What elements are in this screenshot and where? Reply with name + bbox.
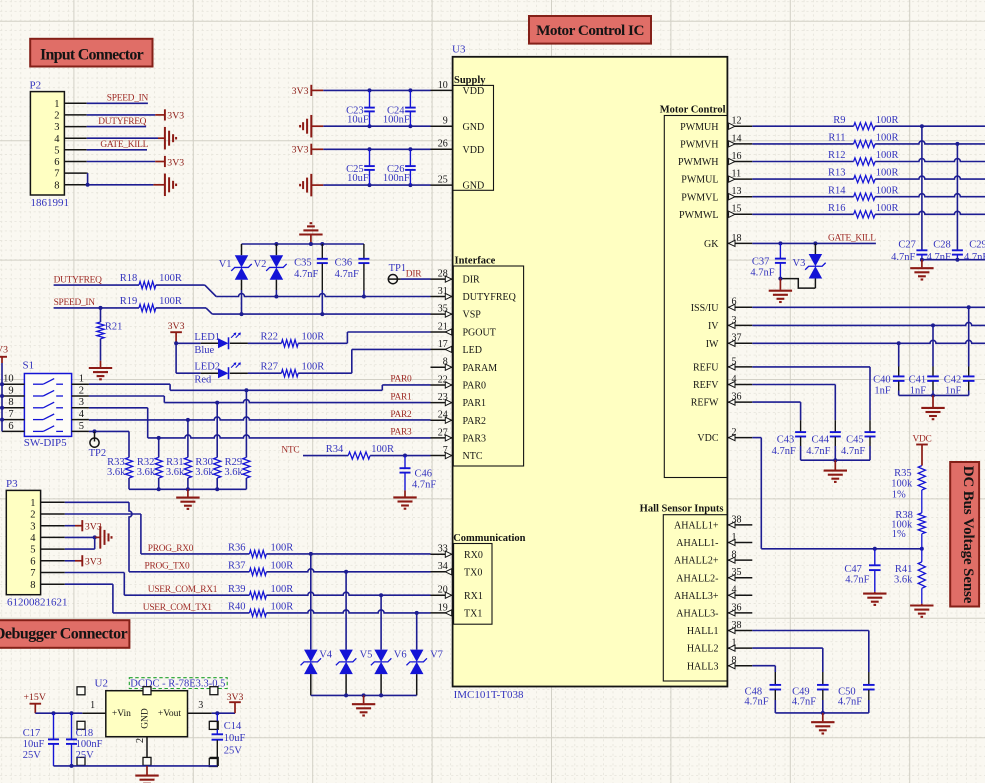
U3 pin 24 (PAR2) xyxy=(431,410,487,427)
U3 pin 4 (AHALL3+) xyxy=(674,585,752,602)
svg-text:V6: V6 xyxy=(394,649,407,660)
svg-text:IW: IW xyxy=(706,339,719,350)
wire C40-C42 rail xyxy=(899,393,969,397)
ground (input TVS bus) xyxy=(299,223,322,244)
ground (C49 rail) xyxy=(811,713,834,734)
wire PWM row R11 left xyxy=(752,143,853,145)
capacitor C26 100nF xyxy=(383,149,416,185)
svg-text:+15V: +15V xyxy=(24,692,46,703)
svg-text:PAR3: PAR3 xyxy=(390,428,412,438)
svg-text:Motor Control IC: Motor Control IC xyxy=(536,22,644,39)
wire S1 row3 to PAR3 xyxy=(89,408,431,440)
test point TP1 xyxy=(388,263,406,284)
net label PAR3 xyxy=(390,428,412,438)
svg-text:2: 2 xyxy=(54,111,59,122)
svg-text:100R: 100R xyxy=(876,150,899,161)
svg-text:100R: 100R xyxy=(876,168,899,179)
U3 pin 35 (AHALL2-) xyxy=(676,567,752,584)
power port 3V3 (VDD pin10) xyxy=(292,85,324,97)
connector P3 (61200821621) xyxy=(6,478,68,608)
svg-text:PAR0: PAR0 xyxy=(463,381,487,392)
svg-text:3V3: 3V3 xyxy=(85,557,102,568)
capacitor C25 10uF xyxy=(346,149,375,185)
svg-text:100R: 100R xyxy=(876,185,899,196)
wire P3 pin1 to PROG_TX0 xyxy=(65,502,141,572)
capacitor C45 4.7nF xyxy=(841,420,876,460)
svg-text:2: 2 xyxy=(79,385,84,396)
svg-text:SW-DIP5: SW-DIP5 xyxy=(24,437,67,449)
svg-text:3.6k: 3.6k xyxy=(166,467,185,478)
svg-text:GATE_KILL: GATE_KILL xyxy=(828,233,876,243)
wire 3V3 to VDD pin 10 xyxy=(323,88,430,92)
wire TVS bottom rail xyxy=(311,693,417,697)
svg-text:3V3: 3V3 xyxy=(167,111,184,122)
capacitor C14 10uF 25V xyxy=(209,713,245,766)
svg-text:PROG_TX0: PROG_TX0 xyxy=(145,562,190,572)
svg-text:+Vin: +Vin xyxy=(112,709,131,719)
svg-text:R11: R11 xyxy=(828,133,845,144)
svg-text:IV: IV xyxy=(708,321,719,332)
svg-text:Interface: Interface xyxy=(455,256,496,267)
wire R36 to U3 xyxy=(266,552,430,556)
resistor R13 100R xyxy=(828,168,899,183)
wire SPEED_IN stub from P2 pin 1 xyxy=(87,102,148,104)
wire P3 pin2 to PROG_RX0 xyxy=(65,514,141,554)
svg-text:100nF: 100nF xyxy=(76,739,103,750)
svg-text:TX1: TX1 xyxy=(464,609,482,620)
svg-text:R34: R34 xyxy=(326,444,344,455)
svg-text:3V3: 3V3 xyxy=(292,86,309,97)
svg-text:100R: 100R xyxy=(876,115,899,126)
svg-text:25: 25 xyxy=(438,175,448,186)
resistor R39 100R xyxy=(228,584,293,599)
wire P2 pin8 to ground xyxy=(88,184,165,186)
U3 pin 34 (TX0) xyxy=(431,561,483,578)
wire GND pin 9 xyxy=(323,124,430,128)
resistor R31 3.6k xyxy=(166,420,192,489)
ground (P3 pin4) xyxy=(100,526,111,549)
svg-text:R9: R9 xyxy=(833,115,845,126)
wire R39 to U3 xyxy=(266,592,430,597)
svg-text:7: 7 xyxy=(30,568,35,579)
svg-text:3: 3 xyxy=(198,700,203,711)
svg-text:10: 10 xyxy=(3,374,14,385)
ground (C37/V3) xyxy=(769,279,792,302)
banner Debugger Connector xyxy=(0,620,129,648)
resistor R9 100R xyxy=(833,115,898,130)
svg-text:25V: 25V xyxy=(76,750,95,761)
U3 pin 25 (GND) xyxy=(431,175,485,192)
svg-text:V1: V1 xyxy=(219,259,232,270)
wire PWM row R13 right xyxy=(875,176,985,179)
svg-text:3: 3 xyxy=(54,122,59,133)
U3 pin 20 (RX1) xyxy=(431,585,483,602)
svg-text:1: 1 xyxy=(54,99,59,110)
power port +15V xyxy=(24,692,46,713)
U3 pin 3 (IV) xyxy=(708,315,752,332)
wire USER_COM_RX1 to R39 xyxy=(124,594,249,596)
U3 pin 37 (IW) xyxy=(706,333,753,350)
U3 pin 8 (PARAM) xyxy=(431,357,498,374)
U3 pin 2 (VDC) xyxy=(697,427,752,444)
svg-text:AHALL3-: AHALL3- xyxy=(676,609,718,620)
U3 group box Communication xyxy=(453,533,525,624)
svg-text:R13: R13 xyxy=(828,168,846,179)
svg-text:+Vout: +Vout xyxy=(158,709,181,719)
svg-text:GND: GND xyxy=(140,708,150,729)
net label SPEED_IN (R19) xyxy=(54,298,96,308)
wire PWM row R16 right xyxy=(875,211,985,214)
svg-text:VDC: VDC xyxy=(697,433,718,444)
svg-text:6: 6 xyxy=(8,421,13,432)
transistor V2 (TVS diode) xyxy=(254,244,287,290)
capacitor C18 100nF 25V xyxy=(66,713,103,766)
svg-text:C37: C37 xyxy=(752,256,770,267)
U3 pin 15 (PWMWL) xyxy=(679,204,752,221)
ground (P2 pin4) xyxy=(165,127,176,150)
ground (TVS rail) xyxy=(352,695,375,715)
svg-text:P2: P2 xyxy=(30,80,42,92)
ground (C27 rail) xyxy=(910,260,933,280)
net label PAR2 xyxy=(390,410,412,420)
diode LED1 (Blue) xyxy=(194,332,248,356)
op-amp U2 (DCDC R-78E3.3-0.5) xyxy=(82,677,227,758)
capacitor C17 10uF 25V xyxy=(23,713,59,766)
svg-text:PWMWH: PWMWH xyxy=(678,157,719,168)
resistor R29 3.6k xyxy=(224,390,250,489)
svg-text:7: 7 xyxy=(8,409,13,420)
svg-text:LED2: LED2 xyxy=(194,362,220,373)
wire TVS top bus xyxy=(242,242,364,246)
resistor R30 3.6k xyxy=(195,403,221,490)
svg-text:R40: R40 xyxy=(228,602,246,613)
wire V3 bottom to C37 node xyxy=(778,277,815,289)
svg-text:R35: R35 xyxy=(894,468,912,479)
wire R18 to U3 pin31 xyxy=(156,285,431,296)
wire GK (GATE_KILL) xyxy=(752,241,876,245)
svg-text:10uF: 10uF xyxy=(347,115,369,126)
svg-text:USER_COM_TX1: USER_COM_TX1 xyxy=(143,603,212,613)
U3 pin 38 (HALL1) xyxy=(687,620,752,637)
svg-text:C17: C17 xyxy=(23,728,41,739)
U3 pin 16 (PWMWH) xyxy=(678,151,752,168)
wire 3V3 to VDD pin 26 xyxy=(323,147,430,151)
svg-text:3V3: 3V3 xyxy=(292,145,309,156)
svg-text:3.6k: 3.6k xyxy=(137,467,156,478)
svg-text:4.7nF: 4.7nF xyxy=(792,697,816,708)
svg-text:6: 6 xyxy=(54,157,59,168)
svg-text:DUTYFREQ: DUTYFREQ xyxy=(463,292,517,303)
svg-text:100R: 100R xyxy=(271,561,294,572)
net label GATE_KILL xyxy=(100,140,148,150)
U3 pin 27 (PAR3) xyxy=(431,427,487,444)
svg-text:100R: 100R xyxy=(271,584,294,595)
svg-text:DC Bus Voltage Sense: DC Bus Voltage Sense xyxy=(960,466,976,604)
svg-text:10: 10 xyxy=(438,80,448,91)
U3 pin 21 (PGOUT) xyxy=(431,321,496,338)
svg-text:4.7nF: 4.7nF xyxy=(412,480,436,491)
svg-text:R14: R14 xyxy=(828,185,846,196)
svg-text:4.7nF: 4.7nF xyxy=(806,446,830,457)
wire C36 lead to DUTYFREQ xyxy=(362,291,366,299)
svg-text:C46: C46 xyxy=(415,468,433,479)
U2 terminal squares xyxy=(77,687,218,766)
resistor R37 100R xyxy=(228,561,293,576)
svg-text:Hall Sensor Inputs: Hall Sensor Inputs xyxy=(640,504,724,515)
svg-text:100R: 100R xyxy=(876,203,899,214)
svg-text:10uF: 10uF xyxy=(23,739,45,750)
svg-text:100R: 100R xyxy=(876,133,899,144)
wire PWM row R16 left xyxy=(752,213,853,215)
svg-text:4.7nF: 4.7nF xyxy=(927,252,951,263)
wire R19 to U3 pin35 (VSP) xyxy=(156,308,431,316)
net label PAR1 xyxy=(390,392,412,402)
svg-text:25V: 25V xyxy=(224,745,243,756)
capacitor C42 1nF xyxy=(944,307,975,396)
transistor V6 (TVS diode) xyxy=(371,595,407,695)
capacitor C50 4.7nF xyxy=(838,672,875,713)
svg-text:VDD: VDD xyxy=(463,145,485,156)
U3 group box Supply xyxy=(453,75,494,190)
wire P3 pin6 to 3V3 xyxy=(65,560,83,562)
svg-text:R21: R21 xyxy=(105,322,123,333)
wire SPEED_IN to R19 xyxy=(54,306,139,310)
svg-text:TP2: TP2 xyxy=(89,448,107,459)
svg-text:4.7nF: 4.7nF xyxy=(845,574,869,585)
svg-text:R18: R18 xyxy=(120,273,138,284)
transistor V1 (TVS diode) xyxy=(219,244,252,290)
power port 3V3 (P2 pin2) xyxy=(165,109,184,121)
U3 pin 35 (VSP) xyxy=(431,304,482,321)
svg-text:3.6k: 3.6k xyxy=(894,574,913,585)
wire PWM row R9 right xyxy=(875,124,985,128)
svg-text:100nF: 100nF xyxy=(383,173,410,184)
svg-text:8: 8 xyxy=(8,397,13,408)
resistor R33 3.6k xyxy=(107,431,133,489)
capacitor C29 4.7nF (clipped) xyxy=(964,239,985,263)
power port 3V3 (P3 pin6) xyxy=(82,555,102,567)
wire C43-C45 rail xyxy=(801,458,870,462)
transistor S1 (SW-DIP5) xyxy=(2,359,89,449)
svg-text:PAR1: PAR1 xyxy=(463,398,487,409)
svg-text:3V3: 3V3 xyxy=(167,157,184,168)
svg-text:HALL1: HALL1 xyxy=(687,626,719,637)
svg-text:9: 9 xyxy=(8,385,13,396)
U3 pin 5 (REFU) xyxy=(693,356,752,373)
wire PWM row R9 left xyxy=(752,125,853,127)
U3 pin 7 (NTC) xyxy=(431,445,483,462)
U3 group box Hall Sensor Inputs xyxy=(640,504,728,681)
svg-text:REFW: REFW xyxy=(691,398,719,409)
wire PROG_RX0 to R36 xyxy=(141,553,250,555)
svg-text:PGOUT: PGOUT xyxy=(463,328,496,339)
svg-text:4.7nF: 4.7nF xyxy=(841,446,865,457)
ground (GND pin25) xyxy=(300,174,323,197)
wire P2 pin4 to ground xyxy=(87,137,165,139)
U3 pin 36 (AHALL3-) xyxy=(676,602,752,619)
wire P3 pin8 to USER_COM_TX1 xyxy=(65,584,113,613)
wire R37 to U3 xyxy=(266,569,430,574)
svg-text:C28: C28 xyxy=(933,239,951,250)
svg-text:TX0: TX0 xyxy=(464,567,482,578)
svg-text:R12: R12 xyxy=(828,150,846,161)
svg-text:5: 5 xyxy=(79,421,84,432)
svg-text:LED: LED xyxy=(463,345,482,356)
svg-text:R36: R36 xyxy=(228,543,246,554)
svg-text:100R: 100R xyxy=(159,273,182,284)
wire NTC to R34 xyxy=(303,455,348,457)
connector P2 (1861991) xyxy=(30,80,87,209)
svg-text:C35: C35 xyxy=(294,258,312,269)
wire REFU to C45 xyxy=(752,367,870,420)
wire R34 to U3 pin7 (NTC) xyxy=(370,454,430,458)
svg-text:PWMVH: PWMVH xyxy=(680,140,718,151)
svg-text:AHALL2-: AHALL2- xyxy=(676,573,718,584)
transistor V3 (TVS diode) xyxy=(793,243,826,288)
U3 pin 14 (PWMVH) xyxy=(680,133,752,150)
wire P3 pin7 to USER_COM_RX1 xyxy=(65,573,125,596)
svg-text:U3: U3 xyxy=(452,44,466,56)
svg-text:C18: C18 xyxy=(76,728,94,739)
wire PWM row R12 right xyxy=(875,159,985,162)
capacitor C43 4.7nF xyxy=(772,420,807,460)
svg-text:C45: C45 xyxy=(846,435,864,446)
svg-text:USER_COM_RX1: USER_COM_RX1 xyxy=(148,585,218,595)
wire IV row xyxy=(752,322,985,327)
svg-text:SPEED_IN: SPEED_IN xyxy=(54,298,96,308)
wire V2 lead to DUTYFREQ xyxy=(274,290,278,299)
svg-text:HALL2: HALL2 xyxy=(687,644,719,655)
svg-text:R39: R39 xyxy=(228,584,246,595)
wire P2 pin2 to 3V3 xyxy=(87,114,165,116)
svg-text:3V3: 3V3 xyxy=(0,344,8,355)
wire HALL2 to C49 xyxy=(752,648,823,672)
U3 pin 1 (AHALL1-) xyxy=(676,532,752,549)
resistor R34 100R xyxy=(326,444,394,459)
svg-text:AHALL3+: AHALL3+ xyxy=(674,591,719,602)
svg-text:C47: C47 xyxy=(844,564,862,575)
wire LED feed xyxy=(174,341,201,373)
svg-text:DIR: DIR xyxy=(406,269,422,279)
svg-text:4.7nF: 4.7nF xyxy=(750,268,774,279)
capacitor C23 10uF xyxy=(346,90,375,126)
capacitor C40 1nF xyxy=(873,343,904,396)
svg-text:2: 2 xyxy=(135,738,146,743)
capacitor C48 4.7nF xyxy=(744,672,781,713)
wire S1 row1 to PAR0 xyxy=(89,384,431,392)
svg-text:GK: GK xyxy=(704,239,719,250)
ground (C44 rail) xyxy=(824,460,847,482)
resistor R40 100R xyxy=(228,602,293,617)
resistor R35 100k 1% xyxy=(891,466,925,513)
svg-text:Red: Red xyxy=(194,374,212,385)
wire HALL1 to C50 xyxy=(752,631,869,673)
svg-text:R19: R19 xyxy=(120,296,138,307)
svg-text:V7: V7 xyxy=(430,649,443,660)
banner DC Bus Voltage Sense xyxy=(950,462,979,607)
resistor R21 xyxy=(97,308,123,361)
svg-text:3.6k: 3.6k xyxy=(224,467,243,478)
svg-text:LED1: LED1 xyxy=(194,332,220,343)
net label USER_COM_TX1 xyxy=(143,603,212,613)
svg-text:V5: V5 xyxy=(360,649,373,660)
resistor R38 100k 1% xyxy=(891,510,925,549)
svg-text:4: 4 xyxy=(79,409,85,420)
svg-text:Communication: Communication xyxy=(453,533,525,544)
svg-text:VDD: VDD xyxy=(463,86,485,97)
wire ISS/IU row xyxy=(752,305,985,309)
svg-text:10uF: 10uF xyxy=(347,173,369,184)
svg-text:Supply: Supply xyxy=(454,75,486,86)
wire IW row xyxy=(752,340,985,345)
capacitor C35 4.7nF xyxy=(294,244,328,290)
svg-text:SPEED_IN: SPEED_IN xyxy=(107,94,149,104)
U3 pin 18 (GK) xyxy=(704,233,752,250)
capacitor C36 4.7nF xyxy=(335,244,370,291)
svg-text:3.6k: 3.6k xyxy=(195,467,214,478)
svg-text:1: 1 xyxy=(79,374,84,385)
svg-text:AHALL1+: AHALL1+ xyxy=(674,521,719,532)
svg-text:C43: C43 xyxy=(777,435,795,446)
wire USER_COM_TX1 to R40 xyxy=(113,612,250,614)
resistor R27 100R xyxy=(260,361,324,377)
U3 group box Motor Control xyxy=(660,105,728,478)
svg-text:NTC: NTC xyxy=(463,451,483,462)
svg-text:C42: C42 xyxy=(944,375,962,386)
wire REFV to C44 xyxy=(752,385,835,421)
svg-text:4.7nF: 4.7nF xyxy=(891,252,915,263)
resistor R19 100R xyxy=(120,296,182,312)
ground (pulldown rail) xyxy=(176,489,199,509)
wire DUTYFREQ stub from P2 pin 3 xyxy=(87,126,146,128)
ground (R21) xyxy=(89,361,112,380)
wire 3V3 to S1 left pins xyxy=(0,363,4,431)
wire C27/C28 ground rail xyxy=(920,258,985,262)
svg-text:PROG_RX0: PROG_RX0 xyxy=(148,544,194,554)
svg-text:PWMUH: PWMUH xyxy=(680,122,718,133)
wire P3 pin5 to pin4 node xyxy=(65,537,95,549)
svg-text:26: 26 xyxy=(438,139,448,150)
resistor R16 100R xyxy=(828,203,899,218)
resistor R18 100R xyxy=(120,273,182,289)
wire R40 to U3 xyxy=(266,610,430,615)
net label PROG_RX0 xyxy=(148,544,194,554)
capacitor C44 4.7nF xyxy=(806,420,841,460)
wire P3 pin4 to ground xyxy=(65,535,101,539)
svg-text:C44: C44 xyxy=(811,435,829,446)
transistor V7 (TVS diode) xyxy=(406,613,442,696)
ground (P2 pin8) xyxy=(165,174,176,197)
svg-text:RX1: RX1 xyxy=(464,591,483,602)
svg-text:7: 7 xyxy=(54,169,59,180)
svg-text:8: 8 xyxy=(54,180,59,191)
svg-text:AHALL2+: AHALL2+ xyxy=(674,556,719,567)
capacitor C27 4.7nF xyxy=(891,126,927,263)
wire C35 lead to SPEED_IN xyxy=(321,290,323,314)
wire PWM row R12 left xyxy=(752,161,853,163)
net label DUTYFREQ (R18) xyxy=(54,276,102,286)
wire pulldown bottom rail xyxy=(129,487,246,491)
svg-text:4.7nF: 4.7nF xyxy=(964,252,985,263)
ground (GND pin9) xyxy=(300,115,323,138)
wire R22 to U3 pin21 (PGOUT) xyxy=(298,332,430,343)
svg-text:PAR2: PAR2 xyxy=(390,410,412,420)
svg-text:4.7nF: 4.7nF xyxy=(335,269,359,280)
wire PWM row R13 left xyxy=(752,178,853,180)
U3 pin 8 (HALL3) xyxy=(687,655,752,672)
wire U2 bottom rail xyxy=(54,764,218,768)
svg-text:3V3: 3V3 xyxy=(168,321,185,332)
